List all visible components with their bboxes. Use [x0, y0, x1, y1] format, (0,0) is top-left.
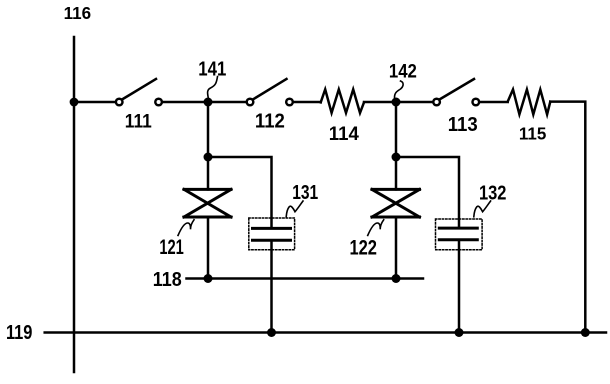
wire node142 down to branch node — [395, 102, 398, 157]
node at branch split (right) — [392, 153, 401, 162]
leader for 142 — [395, 81, 404, 98]
svg-text:118: 118 — [153, 268, 182, 291]
svg-text:112: 112 — [255, 110, 285, 132]
dashed box 131 — [249, 218, 295, 250]
svg-text:122: 122 — [349, 236, 377, 259]
resistor 114 — [321, 89, 364, 113]
label 115 — [519, 124, 547, 144]
wire node142 to switch 113 — [396, 101, 433, 104]
capacitor 131 — [253, 228, 291, 240]
node junction on 116 bus — [70, 98, 79, 107]
wire node141 down to branch node — [207, 102, 210, 157]
label 116 — [64, 3, 92, 23]
label 119 — [6, 321, 33, 344]
wire 116 vertical bus (left) — [73, 37, 76, 372]
leader for 131 — [286, 201, 303, 217]
switch 112 — [247, 79, 293, 105]
svg-text:131: 131 — [292, 182, 318, 204]
wire varactor122 to line 118 — [395, 217, 398, 279]
switch 111 — [116, 79, 162, 105]
switch 113 — [433, 79, 479, 105]
varactor 121 — [184, 189, 231, 217]
svg-text:111: 111 — [125, 111, 152, 132]
wire varactor122 top stub — [395, 157, 398, 189]
svg-text:116: 116 — [64, 3, 92, 23]
wire varactor121 to line 118 — [207, 217, 210, 279]
leader for 122 — [368, 220, 384, 236]
label 114 — [329, 123, 359, 145]
svg-text:115: 115 — [519, 124, 547, 144]
wire 118 horizontal — [187, 277, 424, 280]
wire capacitor 132 to line 119 — [458, 240, 461, 333]
label 118 — [153, 268, 182, 291]
svg-text:142: 142 — [389, 61, 417, 83]
label 132 — [479, 183, 507, 205]
wire switch113 to resistor 115 — [479, 101, 507, 104]
leader for 132 — [474, 201, 491, 217]
wire node141 to switch 112 — [208, 101, 246, 104]
wire branch node to capacitor 132 column — [396, 157, 459, 228]
wire capacitor 131 to line 119 — [270, 240, 273, 332]
node cap131 on 119 — [267, 328, 276, 337]
wire switch111 to node 141 — [162, 101, 208, 104]
leader for 121 — [178, 220, 194, 236]
svg-text:141: 141 — [198, 59, 226, 81]
wire varactor121 top stub — [207, 157, 210, 189]
dashed box 132 — [436, 219, 483, 250]
label 113 — [448, 113, 478, 136]
node on line 118 (left) — [204, 274, 213, 283]
label 111 — [125, 111, 152, 132]
svg-text:121: 121 — [159, 236, 184, 259]
capacitor 132 — [439, 228, 477, 240]
label 121 — [159, 236, 184, 259]
svg-text:114: 114 — [329, 123, 359, 145]
node on line 118 (right) — [392, 274, 401, 283]
wire switch112 to resistor 114 — [293, 101, 321, 104]
node 142 — [392, 98, 401, 107]
label 112 — [255, 110, 285, 132]
node 141 — [204, 98, 213, 107]
varactor 122 — [372, 189, 420, 217]
node cap132 on 119 — [455, 328, 464, 337]
svg-text:132: 132 — [479, 183, 507, 205]
wire 119 horizontal bus — [45, 331, 606, 334]
svg-text:119: 119 — [6, 321, 33, 344]
svg-text:113: 113 — [448, 113, 478, 136]
label 131 — [292, 182, 318, 204]
leader for 141 — [208, 77, 218, 99]
node resistor115 branch on 119 — [581, 328, 590, 337]
label 141 — [198, 59, 226, 81]
wire branch node to capacitor 131 column — [208, 157, 272, 228]
label 142 — [389, 61, 417, 83]
wire resistor114 to node 142 — [364, 101, 396, 104]
wire resistor115 right and down to line 119 — [550, 102, 585, 333]
label 122 — [349, 236, 377, 259]
node at branch split (left) — [204, 153, 213, 162]
wire from 116 bus to switch 111 — [74, 101, 115, 104]
resistor 115 — [508, 90, 551, 115]
